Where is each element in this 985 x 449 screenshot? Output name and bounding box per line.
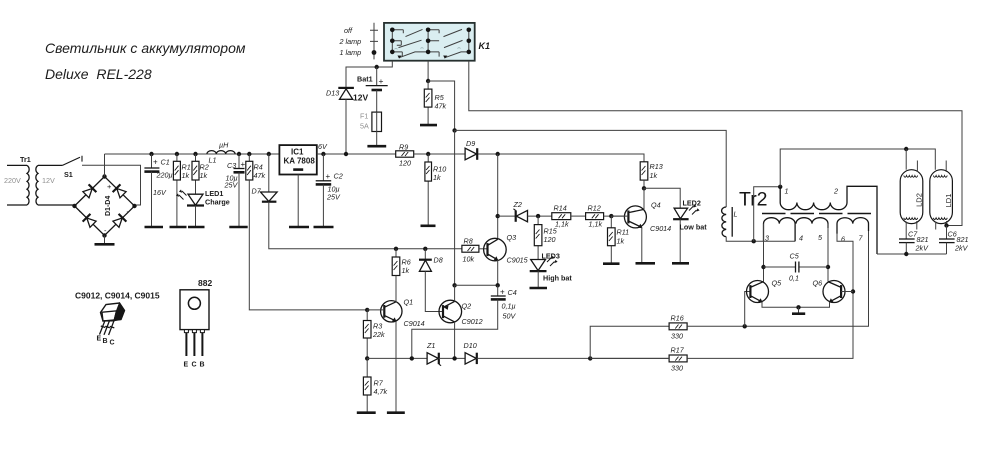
LED LED2 <box>644 188 707 263</box>
wire battery feed vertical <box>454 130 456 285</box>
svg-text:25V: 25V <box>326 193 341 202</box>
svg-text:50V: 50V <box>503 312 517 321</box>
resistor R9 <box>396 143 414 168</box>
node LD2 top <box>904 147 908 151</box>
wire Q2 emitter up <box>454 285 456 301</box>
fuse F1 <box>360 112 382 147</box>
resistor R7 <box>363 358 387 412</box>
col verticals joining contacts <box>392 30 469 52</box>
wire Q1 collector <box>395 276 397 302</box>
resistor R8 <box>462 237 479 264</box>
svg-text:Bat1: Bat1 <box>357 75 373 84</box>
node Q5 base branch <box>743 324 747 328</box>
svg-text:LD1: LD1 <box>944 194 953 208</box>
wire Z1 to D10 <box>439 357 466 359</box>
svg-text:12V: 12V <box>42 176 55 185</box>
node R15 top <box>536 214 540 218</box>
ground (R10) <box>421 225 436 228</box>
svg-text:D10: D10 <box>464 341 477 350</box>
wire D9 node down to Q3 <box>497 154 499 239</box>
svg-text:High bat: High bat <box>543 274 572 283</box>
ground (LED2) <box>672 262 689 265</box>
svg-text:C1: C1 <box>161 158 170 167</box>
transistor package TO-92 drawing <box>75 291 160 347</box>
resistor R13 <box>640 162 662 189</box>
wire R16 to winding 7 <box>687 231 868 326</box>
relay switch block K1 <box>384 23 490 61</box>
resistor R10 <box>425 152 446 226</box>
row3 contacts <box>392 52 439 57</box>
svg-text:KA 7808: KA 7808 <box>284 157 316 166</box>
svg-text:E: E <box>97 336 102 343</box>
node pin 1 <box>778 185 782 189</box>
wire K1 col3 to lamps (top right rail) <box>469 61 962 226</box>
transistor Q2 <box>439 300 483 326</box>
node R13 bottom <box>642 186 646 190</box>
node D9 out junction <box>496 152 500 156</box>
wire pin3 to Q5 collector <box>763 224 765 282</box>
resistor R4 <box>246 152 266 180</box>
svg-text:E: E <box>184 362 189 369</box>
capacitor C1 <box>144 152 172 227</box>
wire R14 to R12 <box>571 215 586 217</box>
wire battery switched node to distribution <box>428 81 455 130</box>
svg-text:D13: D13 <box>326 89 339 98</box>
svg-text:Q6: Q6 <box>813 279 823 288</box>
wire LD2 top lead <box>905 149 907 170</box>
svg-text:LD2: LD2 <box>915 193 924 207</box>
wire main 6V rail left section <box>105 153 280 155</box>
ground (Q1) <box>387 411 405 414</box>
svg-text:1k: 1k <box>433 173 441 182</box>
transformer Tr2 <box>739 186 877 254</box>
secondary winding 4-5 <box>796 218 828 228</box>
svg-text:1k: 1k <box>650 171 658 180</box>
svg-text:1 lamp: 1 lamp <box>340 48 362 57</box>
svg-text:D7: D7 <box>252 187 262 196</box>
svg-text:LED2: LED2 <box>683 199 701 208</box>
node Q2 emitter feed <box>452 283 456 287</box>
svg-text:3: 3 <box>765 234 769 243</box>
svg-text:0,1: 0,1 <box>789 274 799 283</box>
wire pin5 to Q6 collector <box>827 224 829 282</box>
ground (bridge) <box>104 236 106 245</box>
resistor R6 <box>392 247 411 302</box>
resistor R12 <box>586 204 604 229</box>
capacitor C4 <box>491 285 517 320</box>
wire Q4 collector <box>643 188 645 209</box>
ground (R7) <box>357 411 376 414</box>
wire R16 branch riser <box>590 326 669 358</box>
LED LED1 <box>176 189 230 227</box>
wire Q4 emitter to ground <box>641 227 643 263</box>
node Z2 tap <box>496 214 500 218</box>
ground (Q5/Q6) <box>798 307 800 313</box>
wire bias rail <box>367 357 427 359</box>
svg-text:6V: 6V <box>318 142 328 151</box>
switch S1 <box>62 156 82 179</box>
svg-text:Z1: Z1 <box>426 341 435 350</box>
node emitter junction <box>796 305 800 309</box>
svg-text:Tr1: Tr1 <box>20 155 31 164</box>
inductor L1 <box>207 141 235 165</box>
svg-text:120: 120 <box>544 235 556 244</box>
diode D10 <box>464 341 477 364</box>
svg-text:C6: C6 <box>948 230 957 239</box>
ground (LED3) <box>530 287 548 290</box>
resistor R11 <box>608 216 630 264</box>
svg-text:Q2: Q2 <box>462 302 472 311</box>
op-amp U1 regulator IC1 <box>279 145 316 227</box>
svg-text:D9: D9 <box>466 139 475 148</box>
svg-text:1k: 1k <box>617 237 625 246</box>
transistor Q4 <box>624 201 671 234</box>
wire Q6 emitter <box>799 302 830 307</box>
wire Q4 base lead <box>611 215 628 217</box>
wire Q2 collector down <box>454 322 456 359</box>
resistor R3 <box>363 321 385 358</box>
transistor package 882 drawing <box>180 278 212 369</box>
ground (R11) <box>603 262 620 265</box>
svg-text:+: + <box>153 158 158 167</box>
svg-text:C9015: C9015 <box>507 256 529 265</box>
svg-text:Charge: Charge <box>205 198 230 207</box>
zener Z1 <box>426 341 441 366</box>
capacitor C6 <box>939 226 969 255</box>
wire feed to primary pin1 <box>754 187 781 241</box>
svg-text:B: B <box>200 362 205 369</box>
wire S1 to bridge AC input <box>82 165 141 205</box>
svg-text:1k: 1k <box>402 266 410 275</box>
svg-text:R12: R12 <box>588 204 601 213</box>
core <box>762 213 874 215</box>
ground (LED1) <box>188 226 205 229</box>
svg-text:F1: F1 <box>360 112 368 121</box>
resistor R14 <box>552 204 571 229</box>
wire rail R9 to corner R13 <box>414 154 644 162</box>
diode D13 <box>326 88 368 154</box>
node bias branch <box>410 356 414 360</box>
ground (C2) <box>314 226 334 229</box>
node battery feed split <box>452 128 456 132</box>
svg-text:L: L <box>734 210 738 219</box>
svg-text:C5: C5 <box>790 252 800 261</box>
node R11 top <box>609 214 613 218</box>
svg-text:4,7k: 4,7k <box>374 387 388 396</box>
svg-text:+: + <box>326 172 331 181</box>
svg-text:Deluxe REL-228: Deluxe REL-228 <box>45 66 152 82</box>
svg-text:5A: 5A <box>360 122 369 131</box>
svg-text:L1: L1 <box>209 156 217 165</box>
svg-text:+: + <box>379 76 384 86</box>
node tap feed <box>752 239 756 243</box>
svg-text:+: + <box>500 288 505 297</box>
node R5 top <box>426 79 430 83</box>
wire R17 run <box>590 292 853 359</box>
svg-text:C3: C3 <box>227 161 236 170</box>
wire Q3 emitter down <box>497 260 499 286</box>
wire D7 to R6/R8 row <box>269 202 462 249</box>
lamp LD2 <box>900 161 923 240</box>
zener Z2 <box>498 200 552 222</box>
svg-text:4: 4 <box>799 234 803 243</box>
svg-text:R16: R16 <box>671 314 684 323</box>
ground (C3) <box>229 226 247 229</box>
svg-text:882: 882 <box>198 278 212 288</box>
svg-text:Low bat: Low bat <box>680 223 708 232</box>
resistor R1 <box>173 152 190 227</box>
svg-text:R8: R8 <box>464 237 473 246</box>
svg-text:Tr2: Tr2 <box>739 189 768 211</box>
capacitor C5 <box>761 252 830 283</box>
node bias to R16/R17 <box>588 356 592 360</box>
transistor Q1 <box>381 298 425 329</box>
node Q3 emitter / C4 <box>496 283 500 287</box>
node C7 bottom <box>904 252 908 256</box>
wire bridge + to rail <box>104 154 106 177</box>
svg-text:Q3: Q3 <box>507 233 517 242</box>
node battery top <box>375 65 379 69</box>
resistor R15 <box>534 216 557 259</box>
wire Q1 emitter to ground <box>395 321 397 413</box>
svg-text:12V: 12V <box>353 93 368 103</box>
capacitor C7 <box>899 230 929 255</box>
svg-text:C4: C4 <box>508 288 517 297</box>
svg-text:2 lamp: 2 lamp <box>339 37 362 46</box>
wire emitter feed row <box>455 284 498 286</box>
svg-text:10k: 10k <box>463 255 475 264</box>
svg-text:Светильник с аккумулятором: Светильник с аккумулятором <box>45 40 246 56</box>
capacitor C3 <box>224 152 246 227</box>
svg-text:120: 120 <box>399 159 411 168</box>
battery Bat1 <box>357 67 388 112</box>
lamp LD1 <box>930 161 953 230</box>
wire pin1 to lamp top rail <box>780 149 935 187</box>
svg-text:C: C <box>110 340 115 347</box>
capacitor C2 <box>316 152 343 227</box>
wire pin6 to Q6 base <box>837 233 853 292</box>
ground (R5) <box>420 124 437 127</box>
secondary winding 6-7 <box>837 218 869 234</box>
wire R8 to Q3 base <box>479 248 488 250</box>
selector position marks <box>339 23 379 60</box>
wire rail IC1 out <box>317 153 396 155</box>
node Q1 base <box>365 308 369 312</box>
svg-text:2kV: 2kV <box>954 244 969 253</box>
node Q2 collector junction <box>452 356 456 360</box>
row1 contacts <box>392 30 439 33</box>
svg-text:220µ: 220µ <box>156 171 173 180</box>
ground (C1) <box>145 226 164 229</box>
svg-text:330: 330 <box>671 332 683 341</box>
svg-text:1,1k: 1,1k <box>589 220 603 229</box>
svg-text:2kV: 2kV <box>915 244 930 253</box>
svg-text:off: off <box>344 26 353 35</box>
wire K1 col2 down <box>427 61 429 81</box>
wire D10 to R16/R17 <box>477 357 669 359</box>
svg-text:Q4: Q4 <box>651 201 661 210</box>
primary winding 1-2 <box>780 186 877 254</box>
svg-text:0,1µ: 0,1µ <box>502 302 516 311</box>
wire K1 col1 to battery node <box>346 61 392 88</box>
svg-text:LED3: LED3 <box>542 252 560 261</box>
wire R12 to Q4 base <box>604 215 626 217</box>
diode bridge D1-D4 <box>72 174 136 237</box>
svg-text:C9012: C9012 <box>462 317 483 326</box>
svg-text:+: + <box>241 160 246 169</box>
node R3/R7 <box>365 356 369 360</box>
resistor R16 <box>669 314 687 341</box>
svg-text:R17: R17 <box>671 346 685 355</box>
wire choke to center tap rail <box>726 237 795 242</box>
wire lamp bottom rail <box>877 253 947 255</box>
row2 contacts <box>392 41 439 46</box>
svg-text:C: C <box>192 362 197 369</box>
svg-text:C9014: C9014 <box>404 319 425 328</box>
svg-text:R9: R9 <box>399 143 408 152</box>
svg-text:IC1: IC1 <box>291 147 304 156</box>
LED LED3 <box>530 252 573 289</box>
svg-text:D8: D8 <box>434 256 443 265</box>
wire Q5 emitter <box>762 302 799 307</box>
diode D9 <box>465 139 477 160</box>
svg-text:+: + <box>107 182 112 191</box>
svg-text:Q1: Q1 <box>404 298 414 307</box>
svg-text:6: 6 <box>841 235 845 244</box>
svg-text:1k: 1k <box>182 171 190 180</box>
diode D7 <box>252 152 278 202</box>
ground (IC1) <box>289 226 309 229</box>
svg-text:1: 1 <box>785 187 789 196</box>
svg-text:B: B <box>103 338 108 345</box>
wire Q6 base lead <box>841 291 853 293</box>
svg-text:C9012, C9014, C9015: C9012, C9014, C9015 <box>75 291 160 301</box>
svg-text:16V: 16V <box>153 188 167 197</box>
contact dots 3x3 <box>390 28 471 55</box>
svg-text:S1: S1 <box>64 170 73 179</box>
svg-text:25V: 25V <box>224 181 239 190</box>
ground (R1) <box>170 226 187 229</box>
node D13 rail junction <box>344 152 348 156</box>
ground (Q4) <box>636 262 656 265</box>
svg-text:Z2: Z2 <box>513 200 522 209</box>
transistor Q5 <box>747 279 783 303</box>
svg-text:220V: 220V <box>4 176 21 185</box>
svg-text:330: 330 <box>671 364 683 373</box>
wire Q1 base lead <box>367 310 384 321</box>
svg-text:K1: K1 <box>479 41 491 51</box>
resistor R5 <box>424 81 446 125</box>
svg-text:R11: R11 <box>617 228 630 237</box>
svg-text:C9014: C9014 <box>650 224 671 233</box>
svg-text:47k: 47k <box>435 102 447 111</box>
wire feed to Tr2 choke <box>455 130 727 207</box>
svg-text:C2: C2 <box>334 172 343 181</box>
svg-text:µH: µH <box>219 141 229 150</box>
transistor Q6 <box>813 279 846 303</box>
svg-text:D1-D4: D1-D4 <box>105 196 112 216</box>
wire D8 to Q2 base <box>425 271 443 311</box>
svg-text:1,1k: 1,1k <box>555 220 569 229</box>
transistor Q3 <box>484 233 529 265</box>
svg-text:22k: 22k <box>372 330 385 339</box>
transformer Tr1 <box>4 155 74 205</box>
resistor R2 <box>192 152 209 194</box>
svg-text:R13: R13 <box>650 162 663 171</box>
svg-text:2: 2 <box>833 187 838 196</box>
wire Q5 base riser <box>745 292 751 327</box>
node LD1 bottom / C6 <box>944 223 948 227</box>
wire R4 to Q1 base <box>249 180 367 310</box>
inductor L choke <box>722 207 738 237</box>
wire C4 bottom to bias rail <box>412 299 498 358</box>
resistor R17 <box>669 346 687 373</box>
secondary winding 3-4 <box>764 218 796 241</box>
svg-text:1k: 1k <box>200 171 208 180</box>
svg-text:Q5: Q5 <box>772 279 783 288</box>
ground (F1/Bat1) <box>367 145 386 148</box>
svg-text:47k: 47k <box>254 171 266 180</box>
node Q6 base <box>851 289 855 293</box>
diode D8 <box>419 247 443 272</box>
svg-text:R14: R14 <box>554 204 567 213</box>
